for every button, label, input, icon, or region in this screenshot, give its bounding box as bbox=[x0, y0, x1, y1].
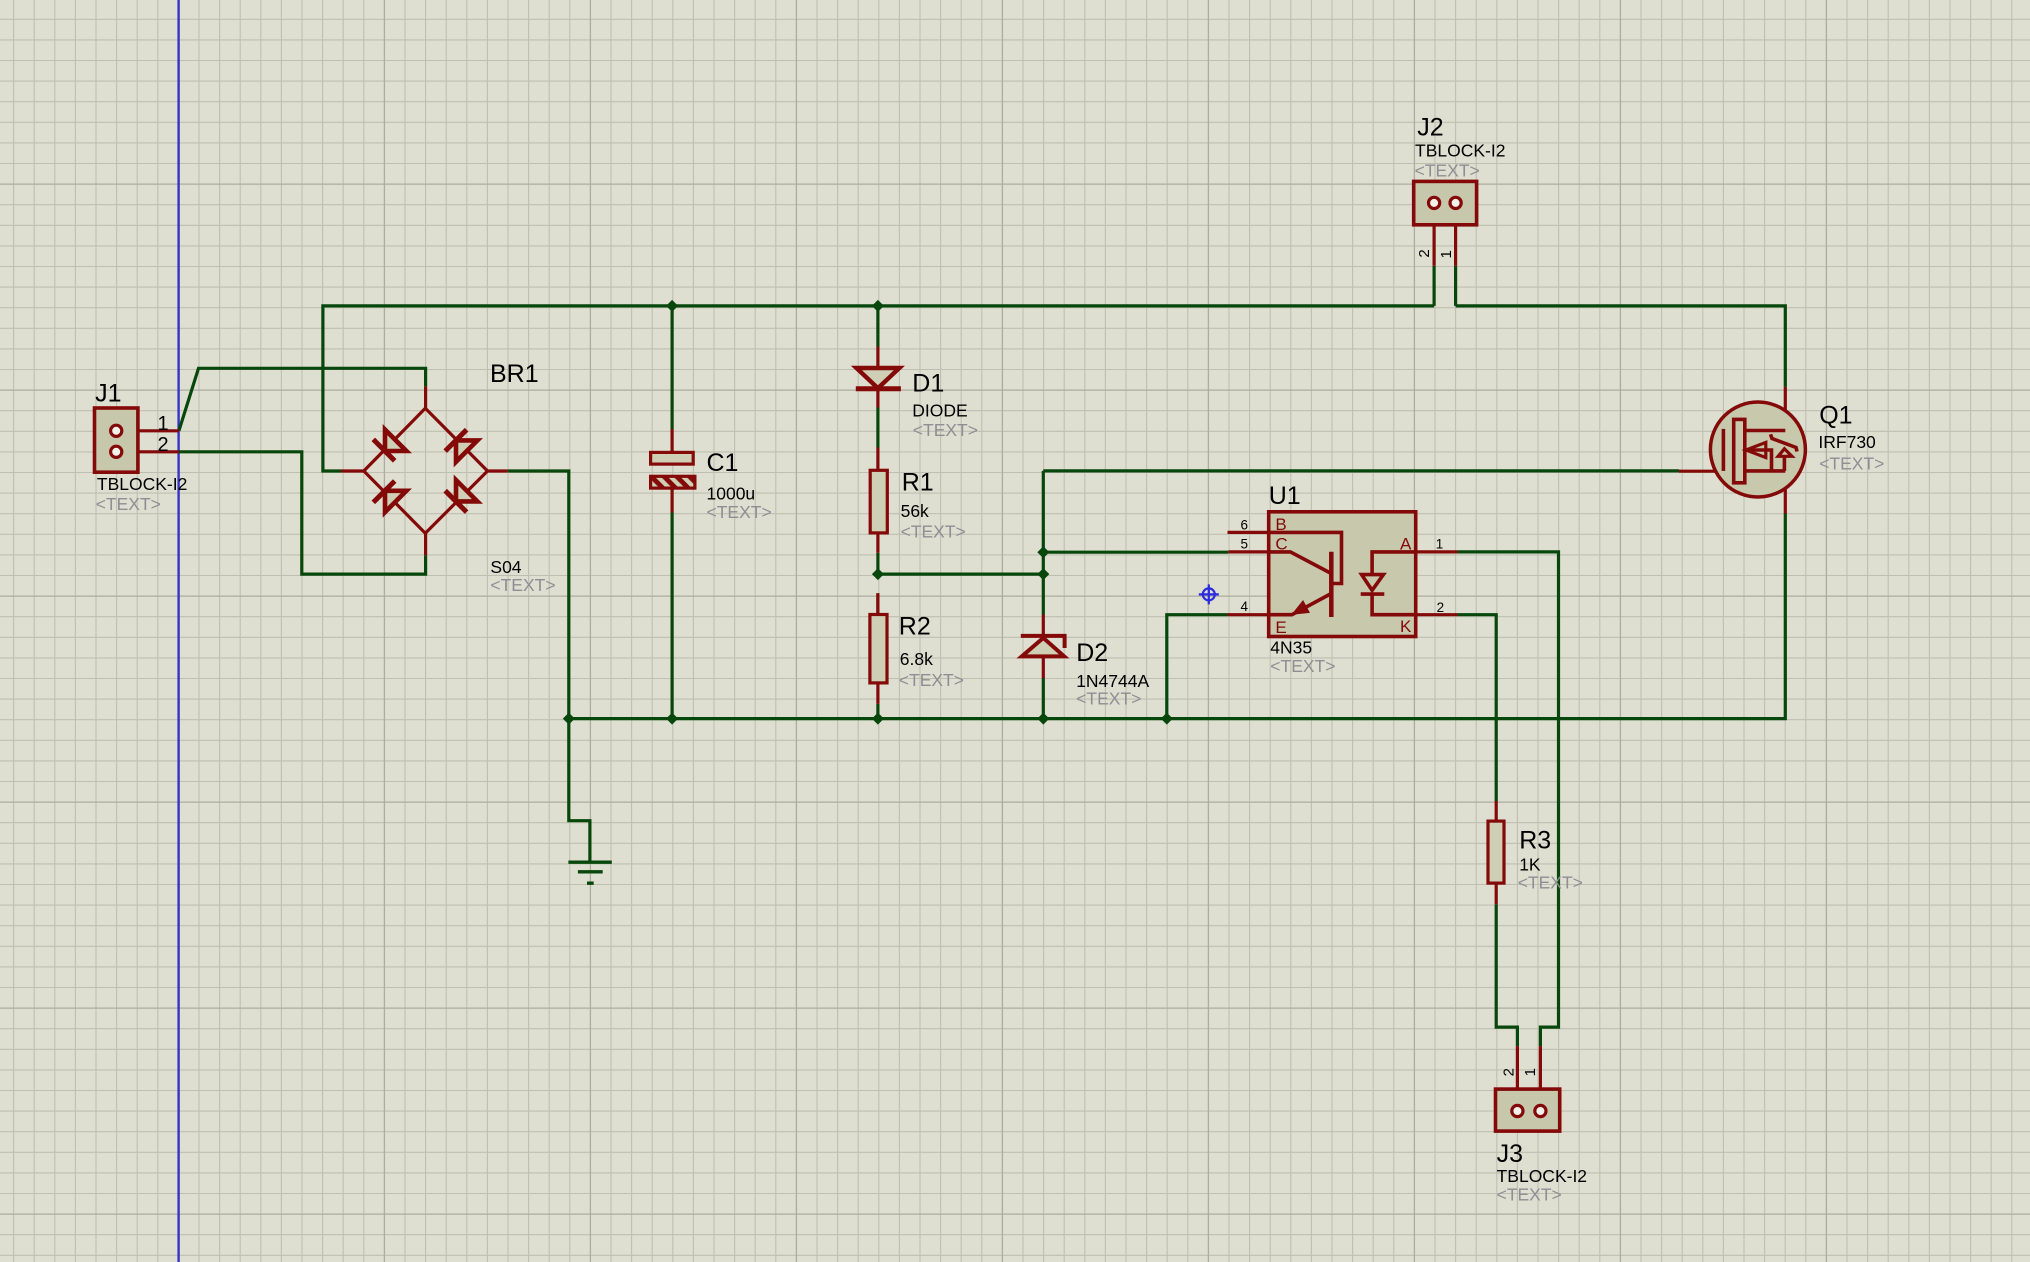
svg-text:TBLOCK-I2: TBLOCK-I2 bbox=[97, 474, 187, 494]
svg-text:1K: 1K bbox=[1519, 854, 1541, 874]
svg-text:K: K bbox=[1400, 617, 1412, 636]
svg-text:D2: D2 bbox=[1076, 639, 1108, 667]
svg-text:<TEXT>: <TEXT> bbox=[1497, 1184, 1562, 1204]
svg-text:<TEXT>: <TEXT> bbox=[899, 670, 964, 690]
svg-text:D1: D1 bbox=[912, 369, 944, 397]
svg-text:<TEXT>: <TEXT> bbox=[1270, 656, 1335, 676]
svg-text:1: 1 bbox=[1436, 536, 1444, 551]
svg-text:R3: R3 bbox=[1519, 826, 1551, 854]
svg-text:B: B bbox=[1275, 515, 1286, 534]
svg-text:4N35: 4N35 bbox=[1270, 638, 1312, 658]
svg-text:J3: J3 bbox=[1497, 1140, 1523, 1168]
svg-text:U1: U1 bbox=[1269, 482, 1301, 510]
svg-text:2: 2 bbox=[158, 434, 169, 456]
svg-text:<TEXT>: <TEXT> bbox=[707, 502, 772, 522]
svg-text:TBLOCK-I2: TBLOCK-I2 bbox=[1415, 141, 1505, 161]
svg-text:56k: 56k bbox=[901, 501, 929, 521]
svg-text:R2: R2 bbox=[899, 613, 931, 641]
svg-text:<TEXT>: <TEXT> bbox=[1076, 689, 1141, 709]
svg-text:1: 1 bbox=[1522, 1068, 1539, 1076]
svg-text:<TEXT>: <TEXT> bbox=[96, 494, 161, 514]
svg-text:1000u: 1000u bbox=[707, 484, 756, 504]
svg-text:TBLOCK-I2: TBLOCK-I2 bbox=[1497, 1166, 1587, 1186]
svg-text:5: 5 bbox=[1241, 536, 1249, 551]
svg-text:J2: J2 bbox=[1417, 114, 1443, 142]
svg-text:<TEXT>: <TEXT> bbox=[901, 522, 966, 542]
svg-text:J1: J1 bbox=[95, 380, 121, 408]
svg-text:6: 6 bbox=[1241, 517, 1249, 532]
svg-text:IRF730: IRF730 bbox=[1818, 432, 1876, 452]
svg-text:4: 4 bbox=[1241, 599, 1249, 614]
svg-text:R1: R1 bbox=[902, 469, 934, 497]
svg-text:6.8k: 6.8k bbox=[900, 649, 933, 669]
svg-text:<TEXT>: <TEXT> bbox=[913, 420, 978, 440]
svg-text:C1: C1 bbox=[707, 449, 739, 477]
svg-text:1: 1 bbox=[158, 413, 169, 435]
svg-text:C: C bbox=[1275, 534, 1287, 553]
svg-text:1: 1 bbox=[1438, 250, 1455, 258]
svg-text:A: A bbox=[1400, 534, 1412, 553]
svg-text:2: 2 bbox=[1416, 249, 1433, 257]
svg-text:2: 2 bbox=[1437, 600, 1445, 615]
svg-text:DIODE: DIODE bbox=[912, 400, 967, 420]
svg-text:2: 2 bbox=[1500, 1068, 1517, 1076]
svg-text:BR1: BR1 bbox=[490, 360, 539, 388]
svg-text:<TEXT>: <TEXT> bbox=[1518, 873, 1583, 893]
svg-text:Q1: Q1 bbox=[1819, 401, 1852, 429]
svg-text:E: E bbox=[1275, 618, 1286, 637]
svg-text:<TEXT>: <TEXT> bbox=[1819, 453, 1884, 473]
svg-text:<TEXT>: <TEXT> bbox=[490, 575, 555, 595]
svg-text:<TEXT>: <TEXT> bbox=[1415, 161, 1480, 181]
